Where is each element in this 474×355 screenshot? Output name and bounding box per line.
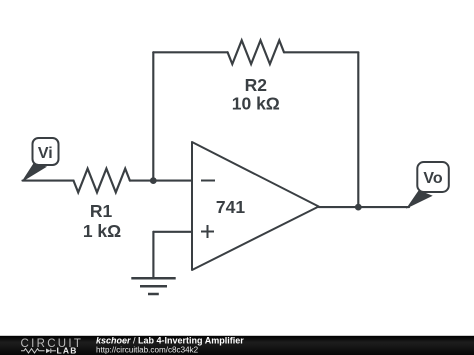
- wire: feedback top left segment: [153, 51, 227, 53]
- resistor R2: [228, 40, 284, 64]
- svg-text:741: 741: [216, 197, 245, 217]
- svg-text:R1: R1: [90, 201, 113, 221]
- svg-text:Vo: Vo: [423, 170, 442, 187]
- node A: junction of R1 / feedback / op-amp: [150, 177, 157, 184]
- svg-text:1 kΩ: 1 kΩ: [83, 221, 121, 241]
- wire: down to ground: [152, 232, 154, 278]
- op-amp U1 (741): [192, 142, 319, 270]
- wire: output from op-amp to Vo: [319, 206, 409, 208]
- ground: [131, 278, 175, 294]
- svg-text:http://circuitlab.com/c8c34k2: http://circuitlab.com/c8c34k2: [96, 345, 199, 354]
- resistor R1: [74, 169, 130, 193]
- svg-text:LAB: LAB: [57, 346, 78, 355]
- flag Vi: [23, 138, 59, 181]
- wire: R1 to op-amp inverting input: [130, 180, 192, 182]
- wire: feedback left vertical: [152, 52, 154, 180]
- svg-text:10 kΩ: 10 kΩ: [232, 94, 280, 114]
- flag Vo: [408, 162, 449, 208]
- svg-text:R2: R2: [245, 75, 268, 95]
- node B: junction of output / feedback: [355, 204, 362, 211]
- pin -: minus symbol: [201, 180, 215, 182]
- pin +: plus symbol: [201, 225, 214, 238]
- logo resistor+diode symbol: [21, 349, 56, 354]
- wire: feedback top right segment: [284, 51, 358, 53]
- wire: feedback right vertical: [357, 52, 359, 207]
- svg-text:kschoer / Lab 4-Inverting Ampl: kschoer / Lab 4-Inverting Amplifier: [96, 336, 244, 346]
- svg-text:Vi: Vi: [38, 145, 53, 162]
- footer bar: [0, 336, 474, 355]
- wire: non-inverting input horizontal: [153, 231, 192, 233]
- wire: input from Vi to R1: [23, 180, 74, 182]
